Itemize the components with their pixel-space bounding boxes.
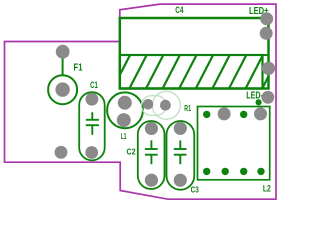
svg-text:C2: C2 (127, 147, 137, 156)
fuse F1 pad center (55, 82, 69, 96)
resistor R1 body obround (fab layer) (141, 96, 166, 116)
capacitor C1 pad top (86, 93, 99, 106)
module L2 pin dot 7 (240, 168, 247, 175)
via dot near LED- (256, 99, 262, 105)
svg-text:L1: L1 (121, 132, 127, 141)
svg-text:R1: R1 (184, 103, 191, 113)
pad LED+ 2 (260, 27, 273, 40)
module L2 pin dot 3 (240, 111, 247, 118)
capacitor C1 body outline (79, 92, 105, 160)
inductor L1 pad bottom (117, 113, 131, 127)
svg-text:LED-: LED- (246, 90, 262, 101)
capacitor C2 polarity symbol (145, 140, 158, 164)
capacitor C4 hatch lines (96, 55, 279, 89)
capacitor C3 pad bottom (174, 174, 187, 187)
capacitor C1 polarity symbol (86, 112, 99, 135)
fuse F1 body circle (48, 75, 77, 104)
resistor R1 pad 1 (143, 99, 154, 110)
module L2 pin dot 5 (203, 168, 210, 175)
capacitor C4 body outline (120, 18, 269, 89)
module L2 body outline (198, 107, 270, 180)
module L2 pin dot 8 (257, 168, 264, 175)
capacitor C2 body outline (138, 121, 165, 189)
pad LED- (262, 91, 275, 104)
inductor L1 body circle (107, 92, 143, 128)
fuse F1 lead wire (62, 59, 64, 76)
module L2 pad 4 (254, 107, 267, 120)
capacitor C3 body outline (167, 121, 195, 190)
resistor R1 pad 2 (160, 100, 171, 111)
capacitor C2 pad bottom (145, 174, 158, 187)
capacitor C1 pad bottom (85, 146, 98, 159)
svg-text:L2: L2 (263, 183, 271, 194)
capacitor C3 pad top (174, 122, 187, 135)
inductor L1 pad top (118, 96, 132, 110)
capacitor C4 hatched band outline (120, 55, 263, 89)
svg-text:C3: C3 (191, 186, 200, 195)
capacitor C3 polarity symbol (174, 140, 187, 164)
board outline (edge cuts) (5, 4, 277, 199)
module L2 pin dot 1 (203, 111, 210, 118)
mounting pad near C1 (55, 146, 68, 159)
svg-text:C4: C4 (175, 5, 183, 15)
pad C4 right (262, 62, 275, 75)
resistor R1 body circle (fab layer) (152, 91, 180, 119)
pad LED+ 1 (260, 12, 273, 25)
svg-text:C1: C1 (90, 80, 98, 91)
module L2 pad 2 (218, 107, 231, 120)
fuse F1 pad top (56, 45, 70, 59)
capacitor C2 pad top (145, 122, 158, 135)
svg-text:F1: F1 (74, 61, 83, 73)
module L2 pin dot 6 (222, 168, 229, 175)
